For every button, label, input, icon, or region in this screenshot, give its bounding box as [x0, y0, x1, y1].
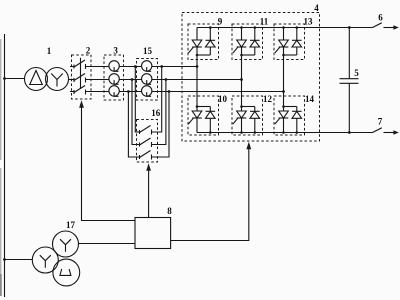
valve box 9: [188, 24, 219, 60]
node phase B to bridge: [240, 78, 243, 81]
node capacitor bottom: [348, 131, 351, 134]
node phase C after 15: [168, 90, 171, 93]
wire DC negative bus: [197, 132, 373, 134]
node bus-machine: [3, 258, 6, 261]
wire phase C riser: [283, 55, 285, 107]
wire bypass left A: [135, 67, 139, 133]
svg-text:2: 2: [86, 46, 91, 56]
transformer 1: [25, 68, 69, 91]
wire phase A riser: [196, 55, 198, 107]
node phase C before 15: [127, 90, 130, 93]
wire phase B (middle): [69, 79, 75, 81]
wire bypass right B: [152, 80, 166, 145]
capacitor 5: [340, 28, 359, 133]
left supply bus: [4, 34, 6, 297]
wire DC positive bus: [197, 27, 373, 29]
valve box 13: [274, 24, 305, 60]
bypass contactor 16: [137, 120, 158, 163]
valve box 11: [232, 24, 263, 60]
converter bridge 4: [182, 13, 320, 142]
wire bypass right C: [152, 92, 170, 158]
reactor 15: [137, 59, 158, 101]
node phase C to bridge: [282, 90, 285, 93]
wire machine to control: [79, 243, 136, 245]
switch 6: [373, 23, 399, 30]
valve box 12: [232, 96, 263, 135]
node phase A before 15: [134, 65, 137, 68]
valve box 14: [274, 96, 305, 135]
svg-text:11: 11: [260, 17, 269, 27]
control line to converter 4: [171, 142, 252, 241]
svg-text:3: 3: [113, 46, 118, 56]
svg-text:15: 15: [143, 46, 153, 56]
control line to contactor 16: [146, 163, 151, 217]
node phase B after 15: [165, 78, 168, 81]
svg-text:12: 12: [263, 94, 273, 104]
node bus-transformer: [3, 77, 6, 80]
wire bypass left C: [128, 92, 139, 158]
wire bypass left B: [132, 80, 140, 145]
reactor 3: [104, 55, 124, 100]
svg-text:5: 5: [354, 68, 359, 78]
svg-text:4: 4: [314, 3, 319, 13]
wire bypass right A: [152, 67, 162, 133]
node phase A to bridge: [196, 65, 199, 68]
control line to breaker 2: [79, 100, 135, 220]
svg-text:6: 6: [378, 13, 383, 23]
valve box 10: [188, 96, 219, 135]
switch 7: [373, 128, 399, 135]
svg-text:8: 8: [167, 206, 172, 216]
svg-text:16: 16: [151, 108, 161, 118]
control unit 8: [135, 218, 171, 249]
node phase A after 15: [160, 65, 163, 68]
svg-text:17: 17: [66, 220, 76, 230]
svg-text:7: 7: [378, 117, 383, 127]
wire bus to transformer: [5, 78, 25, 80]
node phase B before 15: [131, 78, 134, 81]
node capacitor top: [348, 26, 351, 29]
wire phase C (bottom): [70, 91, 74, 93]
svg-text:14: 14: [305, 94, 315, 104]
wire phase B riser: [241, 55, 243, 107]
wire bus to machine: [5, 259, 33, 261]
svg-text:1: 1: [47, 46, 52, 56]
machine set 17: [32, 231, 79, 286]
svg-text:13: 13: [304, 17, 314, 27]
wire phase A (top): [70, 66, 74, 68]
breaker 2: [72, 55, 92, 99]
svg-text:10: 10: [218, 94, 228, 104]
svg-text:9: 9: [218, 17, 223, 27]
